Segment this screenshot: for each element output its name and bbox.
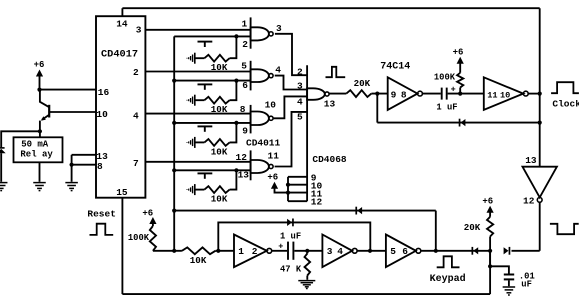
node row 2 junction — [234, 79, 238, 83]
wire pin16 to +6 node — [40, 89, 97, 91]
touch plate row 3 — [198, 126, 213, 131]
resistor 47K — [305, 251, 311, 280]
op-amp U4f 74C14 inverter 5-6 — [386, 235, 421, 268]
CD4068 pin 5 label — [297, 111, 303, 122]
wire resistor to junction row 3 — [230, 123, 237, 142]
svg-text:8: 8 — [401, 90, 407, 101]
resistor 10K row 3 — [204, 139, 229, 146]
wire inverter 10 output to clock bus — [528, 93, 540, 95]
capacitor C2 1uF (keypad) — [278, 242, 293, 260]
node tie row2 — [172, 79, 176, 83]
wire clock bus vertical (right) — [539, 8, 541, 167]
inverter pin 5 label — [390, 246, 396, 257]
wire 100K to 10K — [153, 250, 182, 252]
inverter pin 4 label — [337, 246, 343, 257]
svg-text:+6: +6 — [34, 60, 45, 70]
NAND gate U2c CD4011 — [251, 105, 274, 133]
wire gate1 output to CD4068 pin 2 — [275, 34, 307, 75]
svg-text:4: 4 — [275, 64, 281, 75]
svg-text:uF: uF — [521, 279, 532, 289]
wire CD4017 pin 13 stub — [72, 154, 97, 156]
wire CD4068 pin 12 stub — [288, 200, 307, 202]
wire feedback (inverter input down) — [376, 94, 378, 123]
power +6 (CD4068 unused inputs) — [267, 172, 288, 192]
node 47K tap — [305, 249, 309, 253]
pin 14 label — [116, 18, 128, 29]
wire 1uF to inverter 3 input — [294, 250, 322, 252]
svg-text:12: 12 — [523, 196, 535, 207]
svg-text:11: 11 — [268, 151, 280, 162]
svg-text:2: 2 — [297, 67, 303, 78]
inverter pin 1 label — [238, 246, 244, 257]
pin 13 label — [96, 151, 108, 162]
wire CD4068 output to 20K — [329, 93, 346, 95]
wire tie to ground — [71, 165, 73, 182]
svg-text:9: 9 — [391, 90, 397, 101]
diode D3 (reset line, points left) — [356, 207, 362, 215]
svg-text:3: 3 — [276, 23, 282, 34]
pin 8 label — [97, 161, 103, 172]
diode D4 (points left into 5-6 output) — [472, 247, 478, 255]
ground (flyback diode) — [0, 183, 7, 191]
wire gate row 1 lower input line — [174, 35, 250, 37]
svg-text:12: 12 — [236, 152, 248, 163]
CD4068 gate body — [307, 88, 329, 100]
svg-text:10: 10 — [96, 109, 108, 120]
svg-text:14: 14 — [116, 18, 128, 29]
ground (CD4017 pins 8,13) — [65, 183, 78, 191]
left tie bus (touch rows common) — [173, 36, 175, 250]
wire 1uF to inverter 11 — [448, 93, 484, 95]
svg-text:CD4068: CD4068 — [312, 154, 347, 165]
gate 3 output pin 10 label — [265, 99, 277, 110]
op-amp U1 CD4017 decade counter box — [96, 16, 145, 198]
CD4068 pin 4 label — [297, 96, 303, 107]
svg-text:10: 10 — [500, 91, 510, 101]
svg-text:16: 16 — [98, 87, 110, 98]
inverter pin 6 label — [402, 246, 408, 257]
resistor 10K row 2 label — [211, 104, 228, 115]
inverter pin 9 label — [391, 90, 397, 101]
node tie bottom — [172, 249, 176, 253]
gate 4 input pin 13 label — [238, 170, 250, 181]
resistor 10K row 2 — [204, 97, 229, 104]
wire inverter 4 output to inverter 5 — [357, 250, 386, 252]
wire CD4017 output to gate row 1 upper input — [145, 29, 250, 31]
pin 15 label — [116, 187, 128, 198]
op-amp U4c 74C14 inverter 13-12 (down) — [523, 167, 557, 203]
wire CD4068 pin 10 stub — [288, 184, 307, 186]
Reset label — [87, 208, 116, 219]
wire resistor to junction row 2 — [230, 81, 237, 101]
op-amp U4a 74C14 inverter 9-8 — [388, 77, 423, 110]
wire keypad node down — [489, 251, 491, 266]
svg-text:13: 13 — [525, 155, 537, 166]
resistor 100K (osc) — [150, 226, 156, 251]
node feedback/clock bus — [538, 121, 542, 125]
diode D1 flyback (clipped at edge) — [0, 148, 6, 182]
CD4068 pins 9-12 tie bus — [287, 177, 289, 201]
gate 2 input pin 5 label — [241, 61, 247, 72]
svg-text:47 K: 47 K — [280, 264, 302, 274]
capacitor C3 .01uF — [504, 275, 514, 287]
wire CD4017 pin 8 stub — [72, 155, 97, 165]
resistor 100K (clock) — [457, 73, 463, 94]
wire contact to resistor row 3 — [196, 141, 205, 143]
wire top rail (pin14 to clock bus) — [122, 7, 539, 9]
capacitor C1 value label — [436, 103, 457, 113]
CD4068 output pin 13 label — [324, 99, 336, 110]
inverted pulse waveform — [550, 224, 579, 234]
wire gate row 4 lower input line — [174, 169, 250, 171]
svg-text:+6: +6 — [267, 172, 278, 182]
74C14 label — [380, 61, 410, 72]
resistor 10K row 1 label — [211, 62, 228, 73]
svg-text:+: + — [278, 242, 283, 252]
svg-text:4: 4 — [337, 246, 343, 257]
CD4011 label — [246, 137, 281, 148]
svg-text:4: 4 — [133, 110, 139, 121]
wire CD4068 pin 9 stub — [288, 176, 307, 178]
wire 10K to inverter 1 input — [215, 250, 234, 252]
wire CD4017 pin 15 down — [121, 198, 123, 294]
relay K1 50 mA box — [14, 137, 63, 162]
clock pulse waveform — [551, 82, 579, 93]
svg-text:20K: 20K — [464, 222, 481, 233]
node inverter 1 input — [216, 249, 220, 253]
svg-text:20K: 20K — [354, 78, 371, 89]
resistor 10K row 4 label — [211, 194, 228, 205]
pin 16 label — [98, 87, 110, 98]
node 5-6 output — [434, 249, 438, 253]
svg-text:100K: 100K — [434, 73, 456, 83]
node inverter 9 input — [375, 92, 379, 96]
gate 1 input pin 1 label — [242, 19, 248, 30]
capacitor C1 1uF (clock) — [442, 84, 456, 99]
node row 1 junction — [234, 34, 238, 38]
svg-text:1: 1 — [238, 246, 244, 257]
svg-text:9: 9 — [242, 125, 248, 136]
pin 7 label — [133, 158, 139, 169]
wire inverter 2 output to 1uF cap — [272, 250, 287, 252]
svg-text:8: 8 — [240, 104, 246, 115]
CD4068 pin 2 label — [297, 67, 303, 78]
svg-text:8: 8 — [97, 161, 103, 172]
touch contact row 4 — [187, 184, 195, 195]
node pin11 tie — [286, 191, 290, 195]
ground (relay) — [33, 183, 46, 191]
svg-text:2: 2 — [133, 67, 139, 78]
svg-text:50 mA: 50 mA — [21, 139, 49, 149]
inverter pin 3 label — [327, 246, 333, 257]
CD4068 label — [312, 154, 347, 165]
resistor 20K (clock) — [346, 90, 371, 97]
gate 4 output pin 11 label — [268, 151, 280, 162]
resistor 100K osc label — [128, 233, 150, 243]
CD4068 pin 3 label — [297, 80, 303, 91]
touch contact row 3 — [187, 137, 195, 148]
wire to .01uF cap — [490, 266, 509, 273]
svg-text:CD4017: CD4017 — [101, 49, 138, 61]
svg-text:100K: 100K — [128, 233, 150, 243]
svg-text:Reset: Reset — [87, 208, 116, 219]
capacitor C2 value label — [280, 232, 301, 242]
gate 1 output pin 3 label — [276, 23, 282, 34]
CD4068 pin 10 label — [311, 181, 323, 192]
wire reset bottom rail — [122, 293, 490, 295]
resistor 100K label — [434, 73, 456, 83]
svg-text:Keypad: Keypad — [430, 273, 466, 285]
resistor 10K row 1 — [204, 55, 229, 62]
svg-text:1 uF: 1 uF — [280, 232, 301, 242]
node pin10 tie — [286, 183, 290, 187]
wire pin 14 to top rail — [121, 8, 123, 16]
power +6 supply (left) — [34, 60, 45, 90]
svg-text:6: 6 — [402, 246, 408, 257]
svg-text:+6: +6 — [142, 208, 153, 218]
CD4068 pin 11 label — [311, 188, 323, 199]
wire bottom rail up to keypad node — [489, 251, 491, 294]
svg-text:13: 13 — [238, 170, 250, 181]
wire inverter 8 output to 1uF — [422, 93, 440, 95]
svg-text:10K: 10K — [190, 255, 207, 266]
pin 3 label — [136, 24, 142, 35]
diode D2 (feedback, points left) — [460, 119, 466, 127]
node stage 3-4 output — [368, 249, 372, 253]
wire resistor to junction row 4 — [230, 170, 237, 189]
op-amp U3 CD4068 8-input NAND input bus — [306, 65, 308, 201]
wire contact to resistor row 2 — [196, 99, 205, 101]
capacitor C3 value label — [519, 271, 535, 289]
wire contact to resistor row 1 — [196, 57, 205, 59]
resistor 20K label — [354, 78, 371, 89]
inverter pin 12 label — [523, 196, 535, 207]
svg-text:7: 7 — [133, 158, 139, 169]
touch plate row 1 — [198, 42, 213, 47]
svg-text:3: 3 — [136, 24, 142, 35]
wire CD4017 output to gate row 2 upper input — [145, 71, 250, 73]
wire gate2 output to CD4068 pin 3 — [275, 76, 307, 90]
svg-text:1 uF: 1 uF — [436, 103, 457, 113]
resistor 10K row 3 label — [211, 146, 228, 157]
node tie reset line — [172, 209, 176, 213]
resistor 10K row 4 — [204, 186, 229, 193]
wire resistor to junction row 1 — [230, 36, 237, 58]
op-amp U4b 74C14 inverter 11-10 — [484, 77, 528, 110]
wire reset line (tie to 5-6 stage) — [174, 210, 436, 212]
transistor Q1 (NPN, drives relay) — [40, 105, 97, 132]
svg-text:1: 1 — [242, 19, 248, 30]
NAND gate U2b CD4011 — [251, 61, 274, 91]
wire CD4017 output to gate row 4 upper input — [145, 161, 250, 163]
svg-text:10K: 10K — [211, 194, 228, 205]
wire emitter node to flyback diode — [1, 131, 40, 147]
power +6 (100K osc) — [142, 208, 156, 226]
diode D6 (points right, osc feedback) — [287, 219, 293, 227]
wire emitter node to relay — [39, 131, 41, 137]
wire relay to ground — [39, 162, 41, 182]
resistor 20K keypad label — [464, 222, 481, 233]
CD4068 pin 12 label — [311, 197, 323, 208]
pin 4 label — [133, 110, 139, 121]
pin 2 label — [133, 67, 139, 78]
pin 10 label — [96, 109, 108, 120]
svg-text:2: 2 — [242, 39, 248, 50]
wire inverter 6 output to keypad node — [421, 250, 490, 252]
svg-text:15: 15 — [116, 187, 128, 198]
inverter pin 13 label — [525, 155, 537, 166]
resistor 47K label — [280, 264, 302, 274]
wire contact to resistor row 4 — [196, 189, 205, 191]
node: pin8/13 tie — [70, 163, 74, 167]
Keypad label — [430, 273, 466, 285]
touch plate row 2 — [198, 84, 213, 89]
svg-text:2: 2 — [252, 246, 258, 257]
keypad pulse waveform — [437, 256, 460, 267]
touch contact row 2 — [187, 95, 195, 106]
diode D5 (points right to inverter 12) — [504, 247, 510, 255]
node tie row3 — [172, 121, 176, 125]
NAND gate U2d CD4011 — [251, 150, 274, 180]
svg-text:11: 11 — [487, 91, 497, 101]
svg-text:3: 3 — [297, 80, 303, 91]
svg-text:Rel ay: Rel ay — [20, 149, 53, 159]
resistor 10K (osc) — [182, 247, 216, 254]
wire CD4068 pin 11 stub — [288, 192, 307, 194]
touch plate row 4 — [198, 173, 213, 178]
node row 3 junction — [234, 121, 238, 125]
inverter pin 2 label — [252, 246, 258, 257]
op-amp U4e 74C14 inverter 3-4 — [322, 235, 357, 268]
svg-text:4: 4 — [297, 96, 303, 107]
wire reset line down to 5-6 output — [435, 211, 437, 251]
wire CD4017 output to gate row 3 upper input — [145, 113, 250, 115]
svg-text:6: 6 — [242, 80, 248, 91]
wire feedback 1-2 input riser — [218, 222, 370, 250]
NAND gate U2a CD4011 — [251, 17, 274, 48]
wire gate3 output to CD4068 pin 4 — [274, 96, 308, 118]
node clock output — [538, 92, 542, 96]
gate 2 input pin 6 label — [242, 80, 248, 91]
svg-text:74C14: 74C14 — [380, 61, 410, 72]
resistor 20K (keypad) — [487, 217, 493, 251]
wire gate row 3 lower input line — [174, 122, 250, 124]
wire 20K to inverter input — [371, 93, 387, 95]
svg-text:+6: +6 — [482, 196, 493, 206]
inverter pin 8 label — [401, 90, 407, 101]
gate 3 input pin 9 label — [242, 125, 248, 136]
ground (47K) — [298, 281, 315, 289]
inverter pin 10 label — [500, 91, 510, 101]
svg-text:10K: 10K — [211, 146, 228, 157]
wire inverter 12 output down — [539, 202, 541, 251]
wire feedback line — [377, 122, 539, 124]
touch contact row 1 — [187, 53, 195, 64]
resistor 10K osc label — [190, 255, 207, 266]
power +6 (100K pullup) — [453, 48, 464, 73]
svg-text:5: 5 — [390, 246, 396, 257]
wire +6 node down to transistor collector — [40, 90, 49, 108]
Clock label — [552, 98, 579, 109]
gate 1 input pin 2 label — [242, 39, 248, 50]
node: emitter/relay junction — [38, 129, 42, 133]
svg-text:12: 12 — [311, 197, 323, 208]
node tie row4 — [172, 168, 176, 172]
op-amp U4d 74C14 inverter 1-2 — [234, 235, 272, 268]
power +6 (20K keypad pullup) — [482, 196, 493, 217]
node .01uF tap — [488, 264, 492, 268]
node: +6/pin16 junction — [37, 88, 41, 92]
CD4068 pin 9 label — [311, 173, 317, 184]
gate 2 output pin 4 label — [275, 64, 281, 75]
ground (.01uF) — [503, 287, 516, 295]
svg-text:5: 5 — [297, 111, 303, 122]
inverter pin 11 label — [487, 91, 497, 101]
svg-text:10: 10 — [265, 99, 277, 110]
reset pulse waveform — [90, 224, 114, 235]
svg-text:5: 5 — [241, 61, 247, 72]
svg-text:3: 3 — [327, 246, 333, 257]
svg-text:Clock: Clock — [552, 98, 579, 109]
wire keypad node to inverter 12 output — [512, 250, 540, 252]
gate 3 input pin 8 label — [240, 104, 246, 115]
wire gate4 output to CD4068 pin 5 — [275, 112, 308, 167]
svg-text:CD4011: CD4011 — [246, 137, 281, 148]
pulse waveform at CD4068 output — [326, 67, 346, 77]
svg-text:13: 13 — [324, 99, 336, 110]
node row 4 junction — [234, 168, 238, 172]
node 100K tap — [458, 92, 462, 96]
wire gate row 2 lower input line — [174, 80, 250, 82]
gate 4 input pin 12 label — [236, 152, 248, 163]
node keypad — [488, 249, 492, 253]
svg-text:+6: +6 — [453, 48, 464, 58]
